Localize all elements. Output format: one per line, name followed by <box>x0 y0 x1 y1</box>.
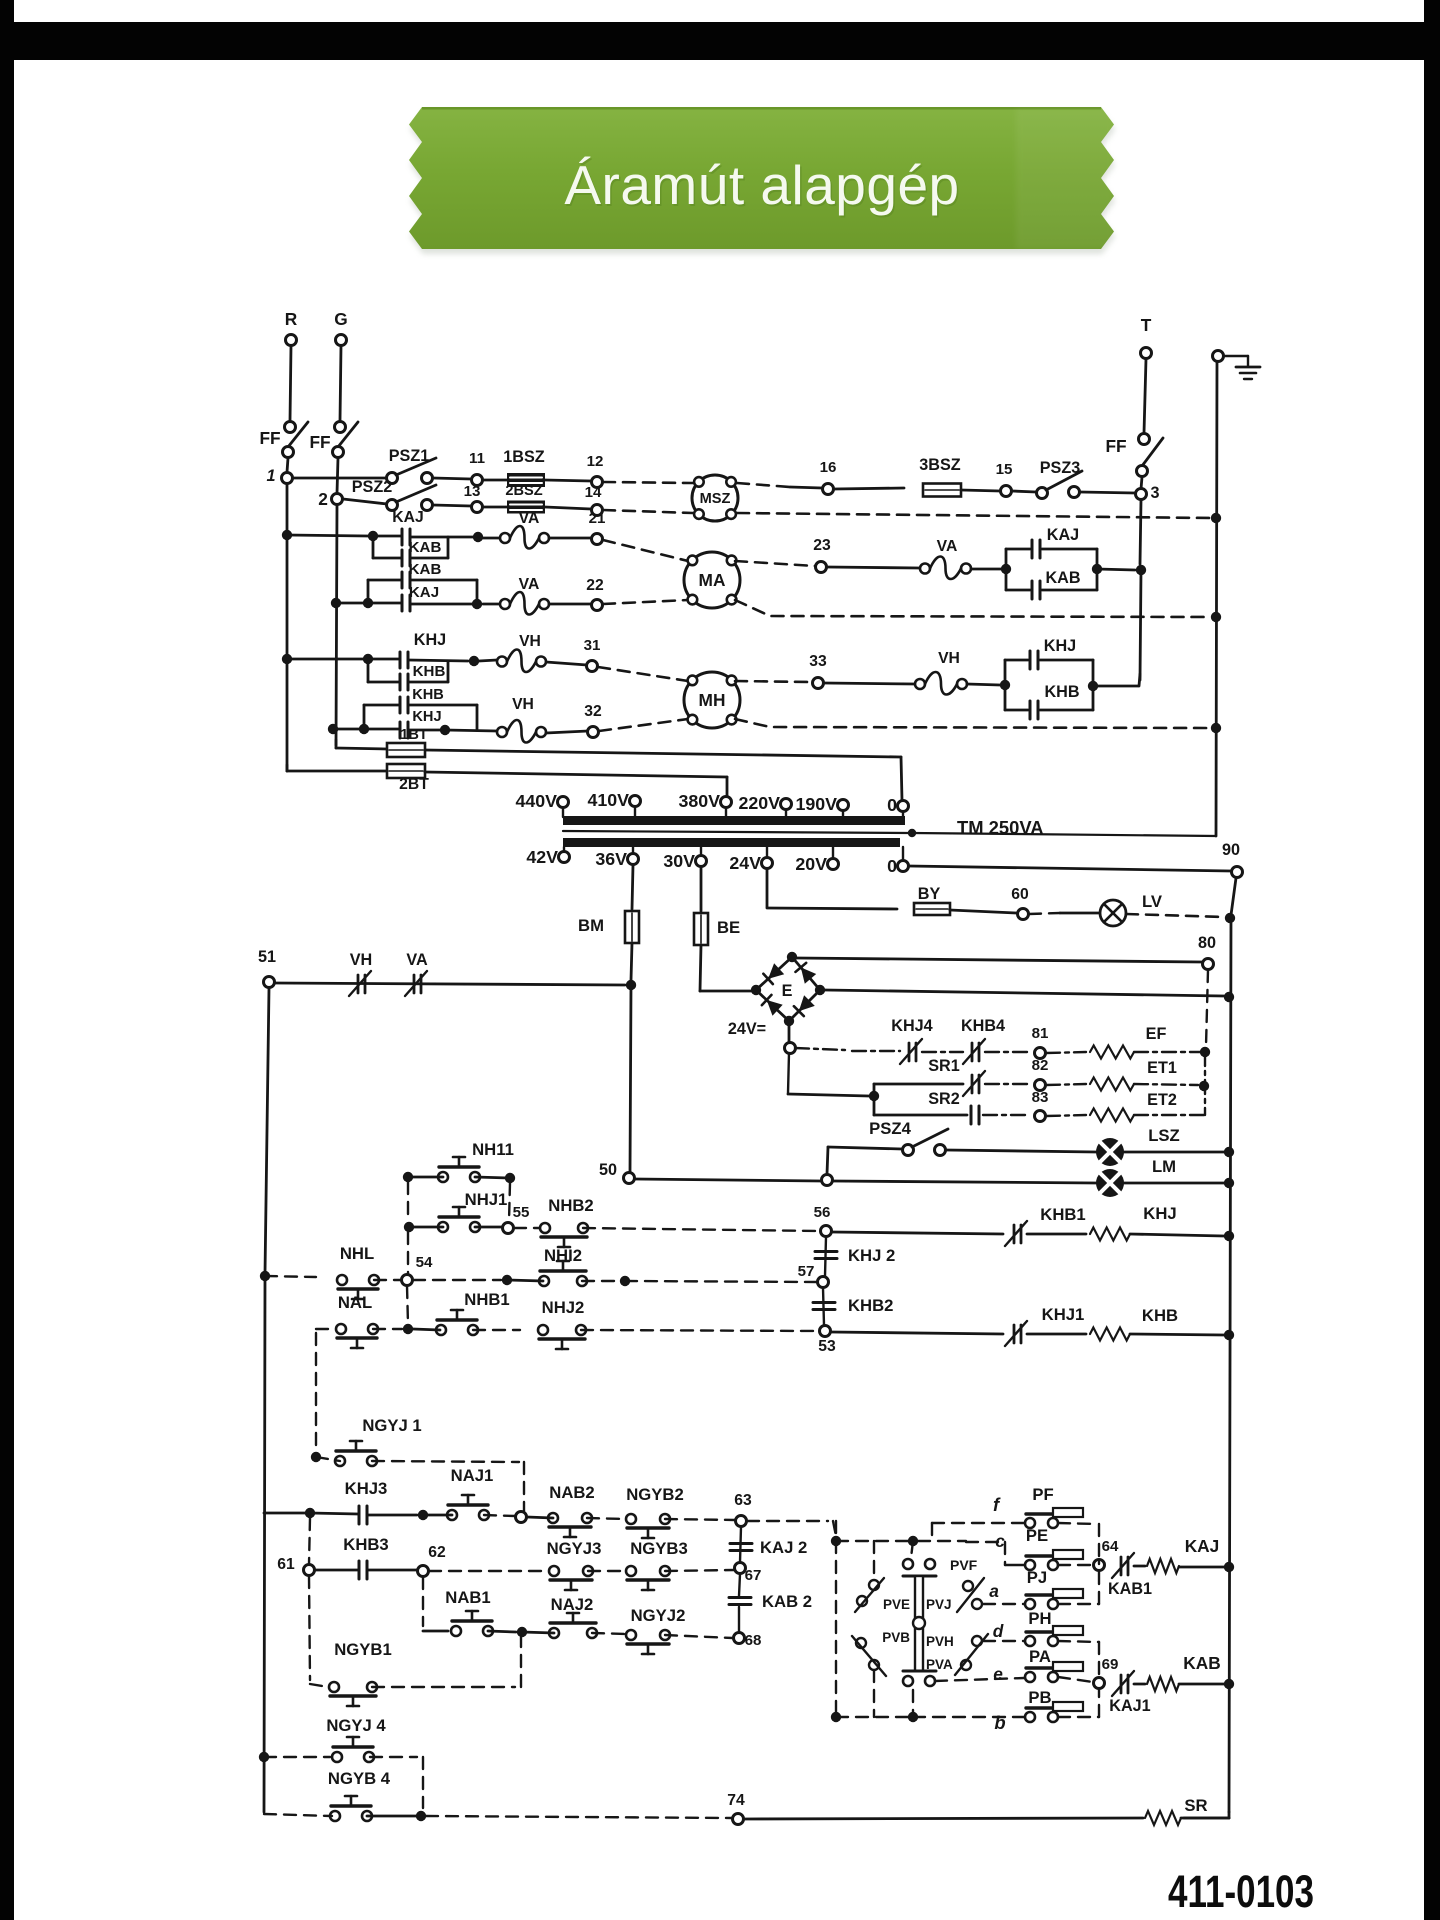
svg-text:PB: PB <box>1028 1688 1051 1707</box>
svg-text:FF: FF <box>309 432 330 452</box>
svg-text:KHJ3: KHJ3 <box>345 1479 388 1498</box>
svg-text:MSZ: MSZ <box>700 491 731 507</box>
svg-text:LV: LV <box>1142 892 1163 911</box>
svg-text:NGYJ 1: NGYJ 1 <box>362 1416 421 1435</box>
svg-text:ET2: ET2 <box>1147 1091 1177 1109</box>
svg-text:32: 32 <box>584 703 602 720</box>
svg-text:LSZ: LSZ <box>1148 1126 1180 1145</box>
svg-text:PVH: PVH <box>926 1634 954 1649</box>
svg-text:VA: VA <box>519 510 540 527</box>
svg-text:b: b <box>994 1712 1005 1733</box>
svg-text:82: 82 <box>1032 1057 1049 1074</box>
svg-text:83: 83 <box>1032 1089 1049 1106</box>
svg-text:KHJ4: KHJ4 <box>891 1017 932 1035</box>
svg-text:KAB1: KAB1 <box>1108 1580 1152 1598</box>
svg-text:42V: 42V <box>526 847 558 867</box>
svg-text:15: 15 <box>996 461 1013 478</box>
svg-text:21: 21 <box>589 510 606 527</box>
svg-text:VH: VH <box>519 633 541 650</box>
svg-text:12: 12 <box>587 453 604 470</box>
svg-text:63: 63 <box>734 1492 752 1509</box>
svg-text:NAJ2: NAJ2 <box>551 1595 594 1614</box>
svg-text:PVF: PVF <box>950 1557 978 1573</box>
svg-text:T: T <box>1141 315 1152 335</box>
svg-text:62: 62 <box>428 1544 446 1561</box>
svg-text:VA: VA <box>406 951 428 969</box>
svg-text:KHJ: KHJ <box>412 709 441 725</box>
svg-text:64: 64 <box>1102 1538 1119 1555</box>
svg-text:KAJ1: KAJ1 <box>1109 1697 1150 1715</box>
svg-text:0: 0 <box>887 856 897 876</box>
svg-text:190V: 190V <box>795 794 837 814</box>
svg-text:3: 3 <box>1150 484 1159 502</box>
svg-text:36V: 36V <box>595 849 627 869</box>
svg-text:PH: PH <box>1028 1609 1051 1628</box>
svg-text:20V: 20V <box>795 854 827 874</box>
svg-text:KHB: KHB <box>1044 683 1079 701</box>
svg-text:KAJ: KAJ <box>392 509 423 526</box>
svg-text:PA: PA <box>1029 1647 1051 1666</box>
svg-text:NAL: NAL <box>338 1293 372 1312</box>
svg-text:VA: VA <box>937 538 958 555</box>
svg-text:KAB: KAB <box>409 539 442 556</box>
svg-text:NAJ1: NAJ1 <box>451 1466 494 1485</box>
svg-text:NHB2: NHB2 <box>548 1196 593 1215</box>
svg-text:PF: PF <box>1032 1485 1053 1504</box>
svg-text:KAB 2: KAB 2 <box>762 1592 812 1611</box>
svg-text:51: 51 <box>258 948 276 966</box>
svg-text:PVE: PVE <box>883 1597 910 1612</box>
svg-text:30V: 30V <box>663 851 695 871</box>
svg-text:220V: 220V <box>738 793 780 813</box>
svg-text:33: 33 <box>809 653 827 670</box>
svg-text:KHB: KHB <box>413 663 446 680</box>
svg-text:11: 11 <box>469 450 485 467</box>
svg-text:a: a <box>989 1581 999 1601</box>
svg-text:NGYB3: NGYB3 <box>630 1539 688 1558</box>
svg-text:VH: VH <box>350 951 373 969</box>
svg-text:KHB4: KHB4 <box>961 1017 1005 1035</box>
svg-text:0: 0 <box>887 795 897 815</box>
svg-text:NGYJ 4: NGYJ 4 <box>326 1716 386 1735</box>
svg-text:R: R <box>285 309 298 329</box>
svg-text:55: 55 <box>513 1204 530 1221</box>
svg-text:61: 61 <box>277 1556 295 1573</box>
svg-text:PSZ4: PSZ4 <box>869 1119 911 1138</box>
svg-text:KHB3: KHB3 <box>343 1535 388 1554</box>
svg-text:53: 53 <box>818 1338 836 1355</box>
svg-text:BY: BY <box>918 885 941 903</box>
svg-text:PJ: PJ <box>1027 1568 1047 1587</box>
svg-text:PSZ2: PSZ2 <box>352 478 393 496</box>
svg-text:KHJ: KHJ <box>1044 637 1076 655</box>
svg-text:ET1: ET1 <box>1147 1059 1177 1077</box>
svg-text:VA: VA <box>519 576 540 593</box>
svg-text:22: 22 <box>586 577 604 594</box>
svg-text:90: 90 <box>1222 841 1240 859</box>
svg-text:2: 2 <box>318 489 328 509</box>
svg-text:NHB1: NHB1 <box>464 1290 509 1309</box>
svg-text:BE: BE <box>717 918 740 937</box>
svg-text:16: 16 <box>820 459 837 476</box>
svg-text:NGYJ3: NGYJ3 <box>547 1539 602 1558</box>
svg-text:FF: FF <box>259 428 280 448</box>
svg-text:68: 68 <box>745 1632 762 1649</box>
svg-text:KAJ 2: KAJ 2 <box>760 1538 807 1557</box>
svg-text:24V=: 24V= <box>728 1020 766 1038</box>
svg-text:1BT: 1BT <box>400 727 428 743</box>
svg-text:57: 57 <box>798 1263 815 1280</box>
svg-text:KHB: KHB <box>1142 1306 1178 1325</box>
svg-text:NAB1: NAB1 <box>445 1588 490 1607</box>
svg-text:E: E <box>782 982 793 1000</box>
svg-text:PVA: PVA <box>926 1657 953 1672</box>
svg-text:Áramút alapgép: Áramút alapgép <box>564 154 959 216</box>
svg-text:380V: 380V <box>678 791 720 811</box>
svg-text:2BSZ: 2BSZ <box>505 483 542 499</box>
svg-text:23: 23 <box>813 537 831 554</box>
svg-text:KAB: KAB <box>1183 1653 1220 1673</box>
svg-text:FF: FF <box>1105 436 1126 456</box>
svg-text:KHB1: KHB1 <box>1040 1205 1085 1224</box>
svg-text:KAJ: KAJ <box>409 584 439 601</box>
svg-text:24V: 24V <box>729 853 761 873</box>
svg-text:G: G <box>334 309 347 329</box>
svg-text:410V: 410V <box>587 790 629 810</box>
svg-text:KHJ 2: KHJ 2 <box>848 1246 895 1265</box>
svg-text:PVJ: PVJ <box>926 1597 952 1612</box>
svg-text:BM: BM <box>578 916 604 935</box>
svg-text:SR1: SR1 <box>928 1057 960 1075</box>
svg-text:KAJ: KAJ <box>1185 1536 1220 1556</box>
svg-text:NH11: NH11 <box>472 1140 514 1159</box>
svg-text:SR: SR <box>1184 1796 1207 1815</box>
svg-text:NAB2: NAB2 <box>549 1483 594 1502</box>
svg-text:NHJ1: NHJ1 <box>465 1190 508 1209</box>
svg-text:NGYJ2: NGYJ2 <box>631 1606 686 1625</box>
svg-text:VH: VH <box>938 650 960 667</box>
svg-text:80: 80 <box>1198 934 1216 952</box>
svg-text:81: 81 <box>1032 1025 1049 1042</box>
svg-text:13: 13 <box>464 483 481 500</box>
svg-text:NHI2: NHI2 <box>544 1246 582 1265</box>
svg-text:69: 69 <box>1102 1656 1119 1673</box>
svg-text:440V: 440V <box>515 791 557 811</box>
svg-text:KHJ: KHJ <box>1143 1204 1176 1223</box>
svg-text:1: 1 <box>266 467 275 485</box>
svg-text:50: 50 <box>599 1161 617 1179</box>
svg-text:VH: VH <box>512 696 534 713</box>
svg-text:KAB: KAB <box>409 561 442 578</box>
svg-text:PVB: PVB <box>882 1630 910 1645</box>
svg-text:EF: EF <box>1146 1025 1167 1043</box>
svg-text:60: 60 <box>1011 886 1029 903</box>
svg-text:31: 31 <box>584 637 601 654</box>
svg-text:67: 67 <box>745 1567 762 1584</box>
svg-text:SR2: SR2 <box>928 1090 960 1108</box>
svg-text:KAJ: KAJ <box>1047 526 1079 544</box>
svg-text:56: 56 <box>814 1204 831 1221</box>
svg-text:14: 14 <box>585 484 602 501</box>
svg-text:74: 74 <box>727 1792 745 1809</box>
svg-text:KHJ: KHJ <box>414 631 446 649</box>
svg-text:54: 54 <box>416 1254 433 1271</box>
svg-text:KAB: KAB <box>1045 569 1080 587</box>
svg-text:MA: MA <box>699 570 726 590</box>
svg-text:LM: LM <box>1152 1157 1176 1176</box>
svg-text:PE: PE <box>1026 1526 1048 1545</box>
svg-text:1BSZ: 1BSZ <box>503 448 544 466</box>
svg-text:411-0103: 411-0103 <box>1168 1866 1314 1917</box>
svg-text:NGYB2: NGYB2 <box>626 1485 684 1504</box>
svg-text:d: d <box>993 1621 1004 1641</box>
svg-text:NGYB 4: NGYB 4 <box>328 1769 391 1788</box>
svg-text:NHL: NHL <box>340 1244 374 1263</box>
svg-text:e: e <box>993 1664 1003 1684</box>
svg-text:MH: MH <box>699 690 726 710</box>
svg-text:NGYB1: NGYB1 <box>334 1640 392 1659</box>
svg-text:KHB2: KHB2 <box>848 1296 893 1315</box>
svg-text:3BSZ: 3BSZ <box>919 456 960 474</box>
svg-text:KHJ1: KHJ1 <box>1042 1305 1085 1324</box>
svg-text:NHJ2: NHJ2 <box>542 1298 585 1317</box>
svg-text:KHB: KHB <box>412 687 444 703</box>
